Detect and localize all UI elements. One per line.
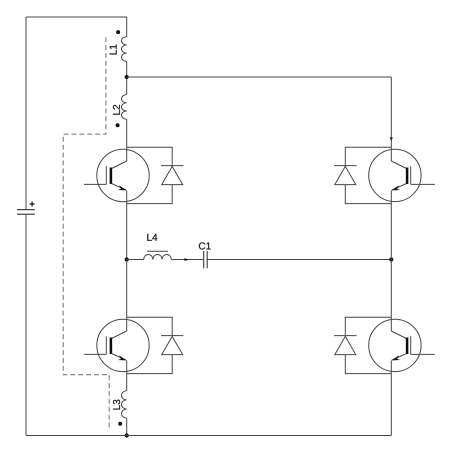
wire L2 to Q1: [126, 119, 128, 161]
wire middle left: [127, 259, 144, 261]
wire L1 to L2: [126, 61, 128, 94]
wire Q3 emitter to L3: [126, 361, 128, 391]
wire C1 to right rail: [207, 259, 391, 261]
current arrow on right rail: [390, 137, 393, 141]
inductor L2: [121, 95, 126, 120]
wire left rail upper: [25, 17, 27, 210]
diode D3 branch wires: [127, 317, 173, 336]
wire Q1 emitter to middle junction: [126, 191, 128, 260]
diode D4: [334, 336, 356, 355]
diode D1: [161, 166, 183, 185]
coupling dot L3: [118, 422, 122, 426]
wire right rail top: [390, 77, 392, 161]
current arrow on middle wire: [185, 258, 190, 261]
wire right rail middle to Q4: [390, 260, 392, 332]
diode D1 branch wires: [127, 147, 173, 166]
wire L3 to bottom rail: [126, 418, 128, 435]
battery V1: [17, 202, 35, 215]
wire Q2 emitter to middle junction: [390, 191, 392, 260]
wire bottom rail: [26, 435, 391, 437]
capacitor C1: [204, 251, 208, 268]
transistor Q3 (bottom-left IGBT): [84, 319, 149, 371]
node A junction dot: [125, 75, 129, 79]
inductor L4: [144, 251, 172, 259]
node D junction dot (bottom): [125, 433, 129, 437]
coupling dot L1: [116, 30, 120, 34]
transistor Q1 (top-left IGBT): [84, 149, 149, 201]
transistor Q2 (top-right IGBT): [369, 149, 435, 201]
transistor Q4 (bottom-right IGBT): [369, 319, 435, 371]
wire L4 to C1: [171, 259, 203, 261]
coupling core dashed line: [63, 37, 109, 431]
wire top rail: [26, 17, 127, 37]
inductor L3: [121, 391, 126, 418]
diode D2 branch wires: [345, 147, 391, 166]
coupling dot L2: [116, 123, 120, 127]
diode D4 branch wires: [345, 317, 391, 336]
node B junction dot (middle left): [125, 257, 129, 261]
inductor L1: [122, 37, 127, 62]
wire middle junction to Q3: [126, 260, 128, 332]
wire left rail lower: [25, 214, 27, 435]
node C junction dot (middle right): [389, 257, 393, 261]
wire Q4 emitter to bottom rail: [390, 361, 392, 436]
diode D3: [161, 336, 183, 355]
diode D2: [334, 166, 356, 185]
wire top cross: [127, 76, 392, 78]
